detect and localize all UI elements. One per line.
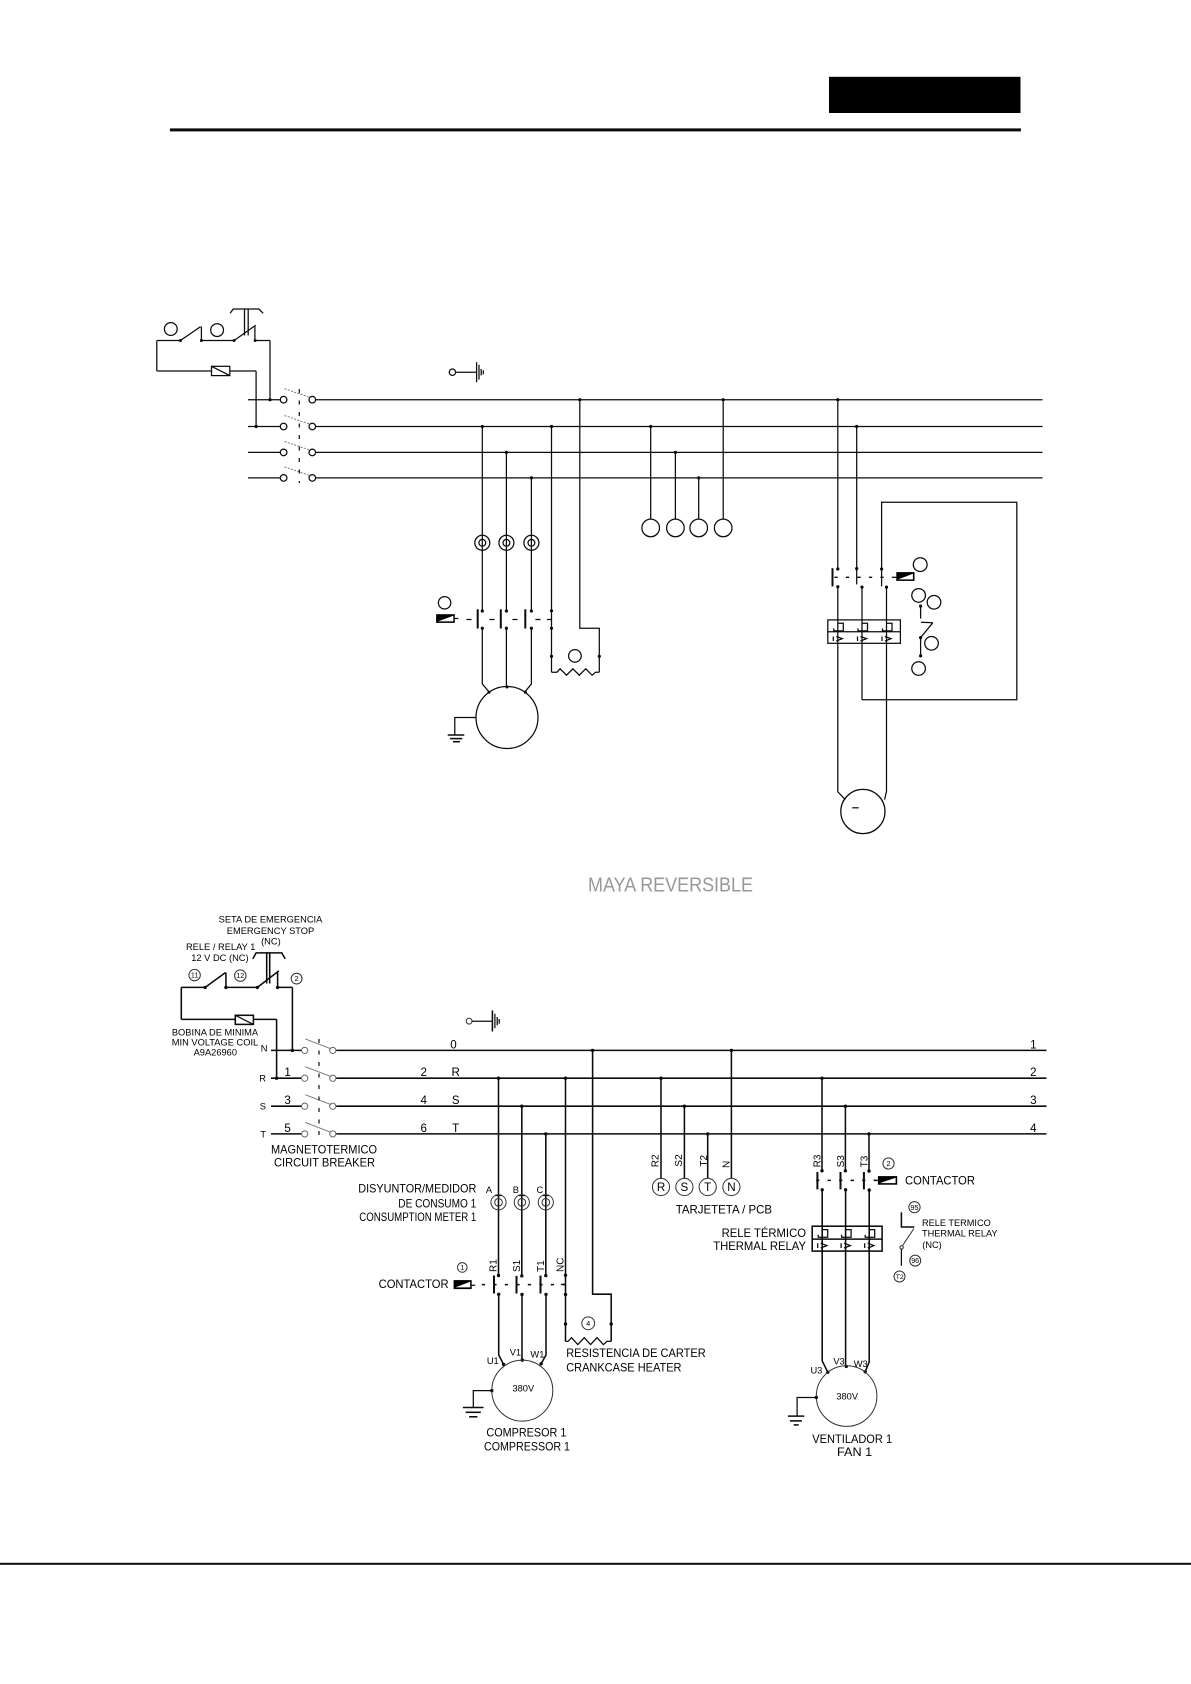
- aux terminal circle T2 (upper): [912, 662, 926, 676]
- thermal relay I> symbol 1 (upper): [833, 637, 842, 642]
- title block bar: [829, 77, 1021, 113]
- node tap B (upper): [505, 451, 508, 454]
- fan wire R3 down (upper): [838, 587, 846, 800]
- meter tap C wire (lower): [543, 1134, 549, 1276]
- svg-text:DISYUNTOR/MEDIDOR: DISYUNTOR/MEDIDOR: [358, 1183, 476, 1196]
- compressor motor lead dots (upper): [488, 686, 527, 694]
- svg-text:4: 4: [1030, 1122, 1037, 1135]
- node PCB S (upper): [674, 451, 677, 454]
- header rule: [170, 128, 1021, 131]
- thermal relay box (lower): [812, 1226, 882, 1251]
- svg-text:TARJETETA / PCB: TARJETETA / PCB: [676, 1204, 773, 1217]
- svg-text:5: 5: [284, 1122, 290, 1135]
- svg-text:R: R: [452, 1066, 460, 1079]
- svg-text:2: 2: [295, 974, 299, 983]
- contactor KM1 pole T1 (lower): [541, 1274, 548, 1296]
- svg-text:4: 4: [420, 1094, 427, 1107]
- node tap C (lower): [544, 1132, 547, 1135]
- svg-text:T2: T2: [896, 1274, 904, 1281]
- circled terminal 2: [291, 973, 302, 984]
- circled terminal 11: [189, 969, 200, 980]
- thermal relay heater element S3 (lower): [842, 1230, 852, 1238]
- svg-text:3: 3: [1030, 1094, 1036, 1107]
- contactor KM1 actuation dashed link (lower): [482, 1284, 566, 1286]
- svg-text:SETA DE EMERGENCIA: SETA DE EMERGENCIA: [219, 915, 323, 925]
- min voltage coil (upper): [212, 366, 230, 375]
- node fan T3 tap (lower): [867, 1132, 870, 1135]
- relay contact 11-12 (lower): [204, 973, 228, 990]
- svg-text:380V: 380V: [512, 1384, 535, 1394]
- contactor KM2 pole 3 (upper): [880, 567, 888, 588]
- svg-text:CONTACTOR: CONTACTOR: [379, 1278, 449, 1291]
- svg-text:MAYA REVERSIBLE: MAYA REVERSIBLE: [588, 875, 753, 897]
- pushbutton circle 11 (upper): [164, 323, 177, 336]
- breaker mechanical link (upper): [298, 389, 300, 483]
- thermal relay I> symbol 2 (lower): [841, 1243, 850, 1248]
- heater neutral wire (upper): [580, 400, 600, 673]
- PCB tap T2 wire (lower): [707, 1134, 709, 1179]
- contactor KM2 coil flag (upper): [896, 572, 914, 581]
- node PCB S2 (lower): [683, 1105, 686, 1108]
- circled number 2 fan contactor: [883, 1158, 894, 1169]
- earth ground symbol (upper): [449, 362, 483, 382]
- svg-text:2: 2: [887, 1159, 891, 1168]
- svg-text:THERMAL RELAY: THERMAL RELAY: [713, 1240, 806, 1253]
- thermal NC aux contact (lower): [900, 1212, 914, 1265]
- svg-text:A: A: [486, 1185, 493, 1195]
- bus line N 0 (lower): [271, 1049, 1047, 1051]
- emergency stop mushroom head (upper): [230, 309, 263, 336]
- svg-text:12: 12: [236, 971, 244, 980]
- PCB tap T wire (upper): [698, 478, 700, 519]
- thermal relay heater element R3 (lower): [818, 1230, 828, 1238]
- node fan S3 tap (lower): [844, 1105, 847, 1108]
- svg-text:EMERGENCY STOP: EMERGENCY STOP: [227, 926, 314, 936]
- compressor motor leads (lower): [499, 1294, 546, 1364]
- compressor lead dots (lower): [502, 1358, 543, 1366]
- thermal relay I> symbol 3 (upper): [882, 637, 891, 642]
- svg-text:11: 11: [191, 971, 198, 980]
- breaker mechanical link (lower): [318, 1039, 320, 1139]
- node PCB N (lower): [730, 1049, 733, 1052]
- svg-text:4: 4: [586, 1319, 590, 1328]
- bus line R 2 (lower): [271, 1077, 1047, 1079]
- svg-text:1: 1: [284, 1066, 290, 1079]
- contactor KM1 pole S1 (upper): [501, 609, 508, 630]
- compressor motor M1 (upper): [476, 687, 538, 749]
- thermal relay heater element 3 (upper): [883, 623, 893, 631]
- contactor KM2 pole 2 (upper): [855, 567, 864, 589]
- pushbutton circle 12 (upper): [211, 324, 224, 337]
- motor ground wire (lower compressor): [473, 1391, 492, 1408]
- svg-text:MIN VOLTAGE COIL: MIN VOLTAGE COIL: [172, 1038, 258, 1048]
- node heater right terminal (upper): [598, 655, 601, 658]
- svg-text:T: T: [704, 1181, 711, 1194]
- svg-text:95: 95: [911, 1203, 919, 1212]
- circled terminal T2: [894, 1271, 905, 1282]
- bus line N (upper): [248, 399, 1043, 401]
- svg-text:1: 1: [460, 1263, 464, 1272]
- svg-text:3: 3: [284, 1094, 290, 1107]
- thermal relay I> symbol 2 (upper): [858, 637, 867, 642]
- bus line S 4 (lower): [271, 1105, 1047, 1107]
- svg-text:(NC): (NC): [922, 1240, 941, 1250]
- svg-text:THERMAL RELAY: THERMAL RELAY: [922, 1229, 998, 1239]
- emergency stop contact (lower): [256, 971, 280, 989]
- svg-text:CONTACTOR: CONTACTOR: [905, 1174, 975, 1187]
- node heater right terminal (lower): [610, 1322, 613, 1325]
- circled terminal 12: [235, 970, 246, 981]
- node PCB R (upper): [649, 425, 652, 428]
- svg-text:S1: S1: [512, 1259, 523, 1272]
- bus line T (upper): [248, 477, 1043, 479]
- svg-text:96: 96: [911, 1256, 919, 1265]
- circuit breaker pole N (lower): [302, 1039, 336, 1054]
- circuit breaker pole R (lower): [302, 1067, 336, 1082]
- contactor KM1 pole R1 (lower): [494, 1274, 500, 1296]
- coil wire (lower): [181, 1019, 276, 1078]
- contactor KM2 actuation dashed link (lower): [816, 1179, 877, 1181]
- fan wire S3 down (upper): [861, 587, 863, 700]
- contactor KM1 pole S1 (lower): [517, 1274, 524, 1296]
- compressor motor leads (upper): [482, 628, 531, 692]
- contactor KM2 circle (upper): [913, 558, 927, 572]
- svg-text:0: 0: [450, 1038, 456, 1051]
- relay chain wire (lower): [181, 987, 292, 1050]
- svg-text:W1: W1: [530, 1350, 544, 1360]
- thermal relay heater element 2 (upper): [858, 623, 868, 631]
- svg-text:RELE / RELAY 1: RELE / RELAY 1: [186, 942, 255, 952]
- meter tap C wire (upper): [530, 478, 532, 611]
- svg-text:N: N: [261, 1044, 268, 1054]
- node motor ground (lower fan): [815, 1396, 818, 1399]
- contactor KM1 pole NC (upper): [547, 609, 553, 630]
- meter tap B wire (lower): [519, 1106, 525, 1275]
- svg-text:S: S: [681, 1181, 689, 1194]
- meter tap A wire (upper): [481, 427, 483, 611]
- svg-text:2: 2: [420, 1066, 426, 1079]
- svg-text:2: 2: [1030, 1066, 1036, 1079]
- svg-text:380V: 380V: [836, 1391, 859, 1401]
- svg-text:RESISTENCIA DE CARTER: RESISTENCIA DE CARTER: [566, 1347, 706, 1360]
- svg-text:U1: U1: [487, 1356, 499, 1366]
- svg-text:N: N: [727, 1181, 735, 1194]
- meter tap A wire (lower): [496, 1078, 502, 1275]
- wire relay chain (upper): [157, 341, 270, 400]
- svg-text:6: 6: [420, 1122, 426, 1135]
- node coil to R (lower): [275, 1077, 278, 1080]
- PCB terminal circle N (lower): [723, 1178, 740, 1195]
- aux terminal circle 96 (upper): [925, 637, 939, 651]
- relay contact 11 (upper): [179, 327, 203, 342]
- fan wire T3 down (upper): [885, 587, 887, 800]
- footer rule: [0, 1563, 1191, 1565]
- svg-text:VENTILADOR 1: VENTILADOR 1: [812, 1433, 892, 1446]
- min voltage coil (lower): [235, 1015, 253, 1024]
- svg-text:MAGNETOTERMICO: MAGNETOTERMICO: [271, 1143, 377, 1156]
- svg-text:U3: U3: [810, 1365, 822, 1375]
- PCB terminal circle S (lower): [676, 1178, 693, 1195]
- svg-text:COMPRESOR 1: COMPRESOR 1: [486, 1427, 566, 1440]
- svg-text:T1: T1: [536, 1260, 547, 1272]
- contactor KM2 actuation dashed link (upper): [834, 576, 884, 578]
- node fan R3 tap (upper): [836, 398, 839, 401]
- svg-text:CONSUMPTION METER 1: CONSUMPTION METER 1: [359, 1211, 476, 1224]
- aux terminal circle 97 (upper): [927, 596, 941, 610]
- consumption meter C (upper): [524, 535, 539, 550]
- contactor KM1 coil flag (lower): [454, 1280, 476, 1289]
- thermal relay heater element T3 (lower): [865, 1230, 875, 1238]
- motor ground wire (lower fan): [797, 1398, 816, 1417]
- fan motor M2 (upper): [841, 789, 885, 833]
- node tap C (upper): [530, 476, 533, 479]
- aux terminal circle 95 (upper): [912, 589, 926, 603]
- svg-text:FAN 1: FAN 1: [837, 1446, 872, 1459]
- circled terminal 96: [910, 1255, 921, 1266]
- svg-text:B: B: [513, 1185, 519, 1195]
- circled terminal 95: [909, 1202, 920, 1213]
- contactor KM1 coil flag (upper): [436, 614, 458, 623]
- contactor KM2 pole S3 (lower): [841, 1169, 848, 1191]
- circuit breaker QF (upper) pole 3: [280, 441, 315, 455]
- node coil to R (upper): [255, 425, 258, 428]
- PCB terminal circle T (lower): [699, 1178, 716, 1195]
- bus line T 6 (lower): [271, 1133, 1047, 1135]
- svg-text:(NC): (NC): [261, 937, 281, 947]
- contactor KM1 actuation dashed link (upper): [466, 619, 545, 621]
- svg-text:R: R: [657, 1181, 665, 1194]
- circuit breaker QF (upper) pole 1: [280, 389, 315, 403]
- crankcase heater element (lower): [566, 1338, 612, 1345]
- node heater N tap (upper): [578, 398, 581, 401]
- svg-text:A9A26960: A9A26960: [194, 1048, 237, 1058]
- contactor KM1 circle (upper): [438, 597, 450, 609]
- svg-text:1: 1: [1030, 1038, 1036, 1051]
- contactor KM1 pole T1 (upper): [525, 609, 533, 630]
- svg-text:R: R: [259, 1074, 266, 1084]
- node NC tap (lower): [564, 1077, 567, 1080]
- PCB terminal N circle (upper): [714, 519, 732, 537]
- thermal NC aux contact chain (upper): [919, 605, 933, 658]
- svg-text:CIRCUIT BREAKER: CIRCUIT BREAKER: [274, 1157, 375, 1170]
- node motor ground (lower compressor): [490, 1389, 493, 1392]
- svg-text:CRANKCASE HEATER: CRANKCASE HEATER: [566, 1361, 681, 1374]
- crankcase heater element (upper): [552, 669, 600, 675]
- fan tap S3 wire (lower): [844, 1106, 846, 1171]
- node PCB T2 (lower): [706, 1132, 709, 1135]
- heater indicator circle (upper): [569, 650, 582, 663]
- PCB tap N wire (upper): [722, 400, 724, 519]
- node heater N tap (lower): [591, 1049, 594, 1052]
- emergency stop mushroom head (lower): [253, 953, 285, 984]
- PCB tap R2 wire (lower): [660, 1078, 662, 1178]
- svg-text:R1: R1: [489, 1259, 500, 1272]
- circuit breaker QF (upper) pole 2: [280, 416, 315, 430]
- node tap A (lower): [497, 1077, 500, 1080]
- PCB terminal R circle (upper): [642, 519, 660, 537]
- svg-text:V3: V3: [833, 1356, 844, 1366]
- node fan S3 tap (upper): [855, 425, 858, 428]
- svg-text:BOBINA DE MINIMA: BOBINA DE MINIMA: [172, 1028, 259, 1038]
- svg-text:S2: S2: [674, 1154, 685, 1167]
- emergency stop contact (upper): [233, 325, 257, 342]
- heater neutral wire (lower): [593, 1050, 612, 1341]
- fan tap S3 wire (upper): [856, 427, 858, 569]
- fan tap R3 wire (upper): [837, 400, 839, 569]
- svg-text:W3: W3: [854, 1359, 868, 1369]
- svg-text:T: T: [260, 1129, 266, 1139]
- svg-text:RELE TÉRMICO: RELE TÉRMICO: [722, 1227, 806, 1240]
- contactor KM2 coil flag (lower): [875, 1176, 898, 1185]
- fan tap R3 wire (lower): [821, 1078, 823, 1171]
- control box outline (upper): [862, 502, 1017, 699]
- NC pole wire from R line (lower): [565, 1078, 567, 1341]
- fan lead dots (lower): [826, 1365, 867, 1374]
- node tap A (upper): [481, 425, 484, 428]
- fan tap T3 wire (lower): [868, 1134, 870, 1171]
- motor ground wire (upper): [455, 718, 476, 736]
- circled number 1 contactor: [458, 1263, 468, 1273]
- node heater left terminal (upper): [550, 655, 553, 658]
- svg-text:RELE TERMICO: RELE TERMICO: [922, 1218, 991, 1228]
- node contact output to N (upper): [268, 398, 271, 401]
- consumption meter A (lower): [491, 1195, 506, 1210]
- contactor KM2 pole T3 (lower): [864, 1169, 871, 1192]
- svg-text:12 V DC (NC): 12 V DC (NC): [191, 953, 248, 963]
- PCB tap S wire (upper): [674, 452, 676, 519]
- svg-text:T: T: [452, 1122, 459, 1135]
- contactor KM1 pole NC (lower): [561, 1274, 567, 1297]
- svg-text:COMPRESSOR 1: COMPRESSOR 1: [484, 1441, 570, 1454]
- PCB terminal S circle (upper): [667, 519, 685, 537]
- PCB tap N wire (lower): [730, 1050, 732, 1178]
- svg-text:S: S: [452, 1094, 460, 1107]
- fan wire R3 down (lower): [822, 1190, 828, 1372]
- earth ground symbol (lower): [466, 1011, 499, 1032]
- contactor KM2 pole 1 (upper): [833, 567, 840, 588]
- node tap B (lower): [520, 1105, 523, 1108]
- bus line R (upper): [248, 426, 1043, 428]
- PCB tap S2 wire (lower): [683, 1106, 685, 1178]
- node NC tap (upper): [550, 425, 553, 428]
- svg-text:DE CONSUMO 1: DE CONSUMO 1: [398, 1197, 476, 1210]
- PCB terminal T circle (upper): [690, 519, 708, 537]
- node fan R3 tap (lower): [820, 1077, 823, 1080]
- circuit breaker QF (upper) pole 4: [280, 467, 315, 481]
- contactor KM2 pole R3 (lower): [817, 1169, 824, 1191]
- contactor KM1 pole R1 (upper): [478, 609, 484, 630]
- thermal relay heater element 1 (upper): [834, 623, 844, 631]
- meter tap B wire (upper): [505, 452, 507, 610]
- motor ground symbol (lower fan): [788, 1416, 804, 1425]
- svg-text:V1: V1: [510, 1348, 521, 1358]
- node PCB N (upper): [722, 398, 725, 401]
- svg-text:C: C: [536, 1185, 543, 1195]
- motor ground symbol (lower compressor): [463, 1408, 484, 1417]
- svg-text:R2: R2: [651, 1154, 662, 1167]
- coil wire (upper): [157, 371, 256, 427]
- circuit breaker pole S (lower): [302, 1095, 336, 1110]
- consumption meter B (upper): [499, 535, 514, 550]
- node PCB T (upper): [697, 476, 700, 479]
- motor ground symbol (upper): [448, 735, 465, 742]
- bus line S (upper): [248, 451, 1043, 453]
- fan motor M2 (lower): [816, 1366, 877, 1427]
- circled number 4 heater: [582, 1317, 595, 1330]
- NC pole wire from R line (upper): [551, 427, 553, 673]
- thermal relay I> symbol 3 (lower): [865, 1243, 874, 1248]
- thermal relay I> symbol 1 (lower): [818, 1243, 827, 1248]
- node estop output to N (lower): [291, 1049, 294, 1052]
- thermal relay box (upper): [828, 620, 901, 643]
- PCB terminal circle R (lower): [652, 1178, 669, 1195]
- svg-text:S: S: [260, 1102, 266, 1112]
- fan wire S3 down (lower): [845, 1190, 847, 1367]
- node heater left terminal (lower): [564, 1322, 567, 1325]
- consumption meter A (upper): [475, 535, 490, 550]
- circuit breaker pole T (lower): [302, 1122, 336, 1137]
- consumption meter C (lower): [538, 1195, 553, 1210]
- consumption meter B (lower): [514, 1195, 529, 1210]
- PCB tap R wire (upper): [650, 427, 652, 520]
- fan wire T3 down (lower): [865, 1190, 869, 1372]
- node PCB R2 (lower): [659, 1077, 662, 1080]
- compressor motor M1 (lower): [492, 1360, 553, 1421]
